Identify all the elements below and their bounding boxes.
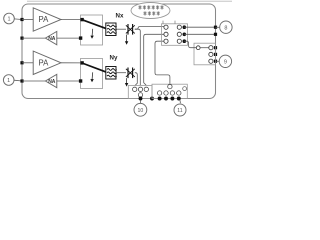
svg-text:NA: NA xyxy=(48,79,56,85)
svg-text:1: 1 xyxy=(7,78,10,84)
svg-text:PA: PA xyxy=(39,59,50,68)
svg-text:8: 8 xyxy=(224,25,227,31)
svg-text:Ny: Ny xyxy=(110,54,118,61)
svg-text:11: 11 xyxy=(177,108,182,114)
svg-text:9: 9 xyxy=(224,59,227,65)
svg-text:PA: PA xyxy=(39,15,50,24)
svg-text:10: 10 xyxy=(138,108,144,114)
svg-text:NA: NA xyxy=(48,36,56,42)
svg-text:Nx: Nx xyxy=(116,12,124,19)
svg-text:1: 1 xyxy=(7,17,10,23)
